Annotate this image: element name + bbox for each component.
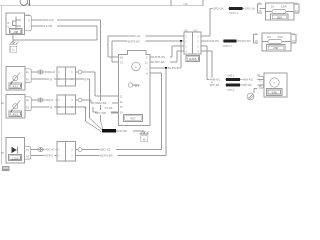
svg-text:438: 438 (13, 30, 18, 34)
svg-text:NO: NO (26, 14, 30, 17)
svg-text:8CP3-8C: 8CP3-8C (168, 66, 181, 70)
svg-text:1N: 1N (267, 35, 271, 39)
svg-text:P-N8: P-N8 (99, 111, 106, 115)
svg-text:260: 260 (277, 15, 282, 19)
svg-text:SP2-JA: SP2-JA (130, 34, 141, 38)
svg-text:1J33: 1J33 (12, 156, 19, 160)
svg-text:15A: 15A (281, 5, 287, 9)
svg-text:25A: 25A (278, 35, 284, 39)
svg-text:2Q: 2Q (295, 10, 298, 13)
svg-text:4T-84: 4T-84 (105, 106, 113, 110)
svg-text:4H8-KC: 4H8-KC (242, 78, 254, 82)
svg-text:B: B (50, 105, 52, 109)
svg-text:10: 10 (271, 5, 275, 9)
svg-text:800A-8: 800A-8 (45, 70, 55, 74)
svg-text:2B: 2B (259, 85, 262, 88)
svg-text:80A-DC: 80A-DC (43, 18, 55, 22)
svg-text:2Q: 2Q (292, 40, 295, 43)
svg-text:SP2-JA: SP2-JA (213, 7, 224, 11)
svg-text:M: M (12, 49, 14, 52)
svg-text:(8CP3-1: (8CP3-1 (223, 45, 233, 48)
svg-text:B: B (85, 77, 87, 81)
svg-text:48T-8A: 48T-8A (155, 60, 166, 64)
svg-text:427: 427 (130, 117, 135, 121)
svg-text:(a): (a) (1, 152, 4, 155)
svg-text:433: 433 (13, 84, 18, 88)
svg-text:4002-84: 4002-84 (95, 101, 107, 105)
svg-text:8CP3-8C: 8CP3-8C (128, 39, 141, 43)
svg-text:40C-8: 40C-8 (45, 148, 54, 152)
svg-text:1N: 1N (255, 40, 258, 43)
svg-text:8CP3-8C: 8CP3-8C (238, 39, 251, 43)
svg-text:8CP3-8S: 8CP3-8S (100, 154, 113, 158)
svg-text:4H8-KC: 4H8-KC (210, 78, 222, 82)
svg-text:646: 646 (272, 91, 277, 95)
svg-text:NC: NC (185, 29, 189, 32)
svg-text:4H8-8A: 4H8-8A (155, 55, 166, 59)
svg-text:SP2-JA: SP2-JA (245, 7, 256, 11)
svg-text:M1: M1 (120, 56, 124, 59)
svg-text:48T-84: 48T-84 (210, 83, 220, 87)
svg-text:(a): (a) (1, 102, 4, 105)
svg-text:R336: R336 (189, 57, 197, 61)
svg-text:8-N0: 8-N0 (120, 129, 127, 133)
svg-text:48T-84: 48T-84 (242, 83, 252, 87)
svg-text:DP07-1: DP07-1 (230, 12, 239, 15)
svg-text:40A-8: 40A-8 (45, 98, 54, 102)
svg-text:8CP3-8C: 8CP3-8C (207, 39, 220, 43)
svg-text:80C-S2: 80C-S2 (100, 148, 111, 152)
svg-text:4-N0: 4-N0 (46, 24, 53, 28)
svg-text:B: B (50, 77, 52, 81)
svg-text:8H8-1: 8H8-1 (228, 75, 235, 78)
svg-text:D: D (28, 19, 30, 22)
svg-text:260: 260 (273, 46, 278, 50)
svg-text:453: 453 (13, 112, 18, 116)
svg-text:U3: U3 (184, 2, 188, 6)
svg-text:8CP3: 8CP3 (45, 154, 53, 158)
svg-text:8HT-1: 8HT-1 (228, 89, 235, 92)
svg-text:NO: NO (194, 29, 198, 32)
